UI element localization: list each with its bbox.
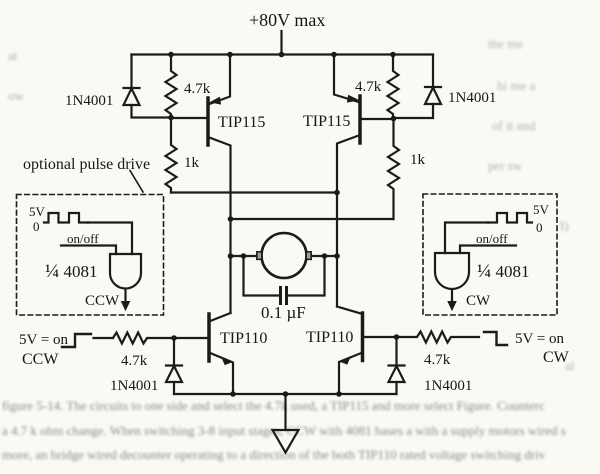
- svg-text:I): I): [560, 218, 569, 233]
- label 0 right box: [536, 220, 543, 235]
- node dot cap branch left: [241, 253, 247, 259]
- wire +80V feed: [280, 31, 282, 55]
- svg-text:optional pulse drive: optional pulse drive: [23, 156, 150, 173]
- waveform step-up left: [62, 334, 91, 347]
- waveform step-down right: [484, 332, 507, 345]
- wire input left: [94, 337, 114, 339]
- svg-text:hi me a: hi me a: [497, 78, 535, 93]
- label 0 left box: [33, 219, 40, 234]
- AND gate 4081 left (U1a): [110, 254, 141, 289]
- svg-text:1N4001: 1N4001: [110, 378, 158, 394]
- transistor TIP115 left (Q1, PNP): [208, 55, 231, 314]
- svg-text:1k: 1k: [410, 152, 426, 168]
- label 5V left box: [29, 204, 46, 219]
- resistor 1k left: [166, 118, 177, 193]
- label TIP115 left: [218, 114, 265, 131]
- label 1/4 4081 right: [477, 261, 530, 282]
- wire motor left lead: [231, 255, 257, 257]
- label 4.7k top-right: [355, 79, 382, 95]
- node dot A on right collector: [334, 190, 340, 196]
- transistor TIP110 right (Q4, NPN): [337, 307, 363, 395]
- svg-text:4.7k: 4.7k: [355, 79, 382, 95]
- svg-text:TIP110: TIP110: [220, 330, 267, 347]
- svg-text:1k: 1k: [184, 155, 200, 171]
- motor M1: [257, 233, 311, 278]
- svg-text:more, an bridge wired decounte: more, an bridge wired decounter operatin…: [2, 447, 546, 462]
- node dot input left: [171, 335, 177, 341]
- wire pulse to gate left box: [88, 223, 132, 255]
- node base node right (dot): [391, 116, 397, 122]
- left dashed box (optional pulse drive CCW): [17, 195, 164, 316]
- label 1N4001 bottom-right: [424, 378, 472, 394]
- svg-text:1N4001: 1N4001: [448, 90, 496, 106]
- label 1N4001 top-right: [448, 90, 496, 106]
- label 5V = on left: [19, 332, 69, 348]
- wire top rail: [132, 53, 434, 55]
- svg-text:of it and: of it and: [492, 118, 536, 133]
- svg-text:1N4001: 1N4001: [424, 378, 472, 394]
- label 0.1 uF: [261, 303, 306, 322]
- node dot Q1 emitter at rail: [227, 52, 233, 58]
- right dashed box (optional pulse drive CW): [423, 194, 557, 315]
- svg-text:5V: 5V: [29, 204, 46, 219]
- svg-text:0: 0: [536, 220, 543, 235]
- svg-text:CCW: CCW: [85, 293, 120, 309]
- transistor TIP115 right (Q2, PNP): [334, 55, 360, 307]
- label 4.7k top-left: [184, 81, 211, 97]
- diode 1N4001 top-right: [394, 55, 442, 119]
- svg-text:5V: 5V: [533, 202, 550, 217]
- svg-text:TIP115: TIP115: [218, 114, 265, 131]
- svg-text:¼ 4081: ¼ 4081: [477, 261, 530, 282]
- diode 1N4001 bottom-right: [389, 337, 405, 394]
- waveform pulses left box: [44, 213, 88, 223]
- label 1/4 4081 left: [45, 261, 98, 282]
- node top rail junction dot center: [279, 52, 285, 58]
- label 1N4001 bottom-left: [110, 378, 158, 394]
- svg-text:¼ 4081: ¼ 4081: [45, 261, 98, 282]
- svg-text:CW: CW: [543, 349, 570, 366]
- svg-text:0.1 µF: 0.1 µF: [261, 303, 306, 322]
- svg-text:CCW: CCW: [22, 351, 59, 368]
- resistor 1k right: [388, 119, 399, 219]
- wire on/off to gate right box: [460, 246, 516, 254]
- label 1k right: [410, 152, 426, 168]
- wire cross-couple A: left 1k bottom to right collector: [171, 191, 337, 193]
- svg-text:4.7k: 4.7k: [424, 352, 451, 368]
- wire motor right lead: [312, 255, 338, 257]
- label 1N4001 top-left: [65, 93, 113, 109]
- node dot Q4 emitter at rail: [336, 391, 342, 397]
- node dot Q2 emitter at rail: [331, 52, 337, 58]
- label TIP115 right: [303, 113, 350, 130]
- label 4.7k bottom-left: [121, 353, 148, 369]
- label on/off left box: [67, 231, 99, 246]
- svg-text:ow: ow: [8, 88, 25, 103]
- label TIP110 right: [306, 329, 353, 346]
- node dot 4.7k top-left at rail: [168, 52, 174, 58]
- node dot cap branch right: [322, 253, 328, 259]
- node dot 4.7k top-right at rail: [390, 52, 396, 58]
- svg-text:TIP115: TIP115: [303, 113, 350, 130]
- label 1k left: [184, 155, 200, 171]
- wire bottom rail: [174, 393, 397, 395]
- label CW right box: [466, 293, 491, 309]
- svg-text:per sw: per sw: [488, 158, 523, 173]
- svg-text:on/off: on/off: [476, 231, 508, 246]
- label CW input right: [543, 349, 570, 366]
- wire Q4 base to node: [364, 336, 397, 338]
- label CCW input left: [22, 351, 59, 368]
- label 4.7k bottom-right: [424, 352, 451, 368]
- wire pulse to gate right box: [445, 223, 488, 254]
- svg-text:4.7k: 4.7k: [121, 353, 148, 369]
- label optional pulse drive: [23, 156, 150, 173]
- node base node left (dot): [168, 115, 174, 121]
- svg-text:the me: the me: [488, 36, 523, 51]
- wire pointer to left box: [130, 171, 143, 193]
- svg-text:+80V max: +80V max: [249, 10, 325, 30]
- wire base left to Q1: [171, 117, 207, 119]
- node dot B on left collector: [228, 216, 234, 222]
- label 5V = on right: [515, 331, 565, 347]
- resistor 4.7k top-left: [166, 55, 177, 119]
- svg-text:0: 0: [33, 219, 40, 234]
- svg-text:CW: CW: [466, 293, 491, 309]
- resistor 4.7k top-right: [388, 55, 399, 120]
- transistor TIP110 left (Q3, NPN): [209, 313, 233, 394]
- svg-text:TIP110: TIP110: [306, 329, 353, 346]
- wire gate output right with arrow: [448, 290, 456, 311]
- diode 1N4001 top-left: [124, 55, 172, 118]
- wire cross-couple B: right 1k bottom to left collector: [231, 218, 394, 220]
- ground: [273, 394, 299, 453]
- label on/off right box: [476, 231, 508, 246]
- node dot input right: [394, 334, 400, 340]
- node dot ground stem: [283, 391, 289, 397]
- svg-text:at: at: [8, 48, 18, 63]
- wire to Q3 base: [174, 337, 207, 339]
- resistor 4.7k bottom-right (horizontal): [397, 332, 480, 343]
- label TIP110 left: [220, 330, 267, 347]
- wire gate output left with arrow: [122, 289, 130, 310]
- waveform pulses right box: [488, 213, 532, 223]
- label CCW left box: [85, 293, 120, 309]
- svg-text:5V = on: 5V = on: [515, 331, 565, 347]
- svg-text:5V = on: 5V = on: [19, 332, 69, 348]
- capacitor C1 0.1uF: [244, 256, 325, 304]
- node dot left collector / motor: [228, 253, 234, 259]
- node dot right collector / motor: [334, 253, 340, 259]
- svg-text:4.7k: 4.7k: [184, 81, 211, 97]
- resistor 4.7k bottom-left (horizontal): [113, 333, 174, 344]
- AND gate 4081 right (U1b): [435, 253, 469, 289]
- node dot Q3 emitter at rail: [230, 391, 236, 397]
- diode 1N4001 bottom-left: [166, 338, 182, 394]
- node +80V supply label: [249, 10, 325, 30]
- wire on/off to gate left box: [61, 246, 116, 255]
- svg-text:figure 5-14. The circuits to o: figure 5-14. The circuits to one side an…: [2, 398, 545, 413]
- svg-text:1N4001: 1N4001: [65, 93, 113, 109]
- svg-text:on/off: on/off: [67, 231, 99, 246]
- wire base right to Q2: [362, 118, 394, 120]
- label 5V right box: [533, 202, 550, 217]
